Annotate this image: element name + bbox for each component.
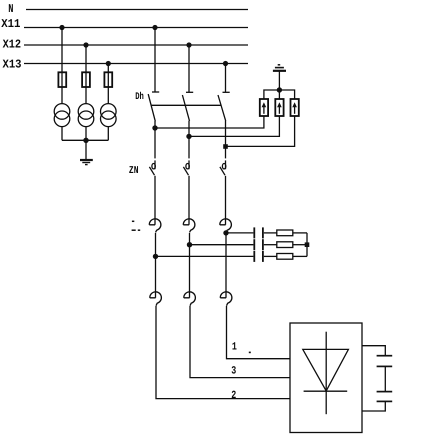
svg-text:2: 2	[231, 390, 236, 402]
node pole 1 arrester tap	[152, 125, 157, 130]
wire Dh pole 2 drop	[188, 45, 190, 92]
capacitor C5	[377, 392, 393, 402]
transformer TV3	[101, 104, 117, 127]
node RC tap pole 1	[153, 254, 158, 259]
wire PT column 1 drop	[61, 28, 63, 104]
wire Dh pole 3 drop	[225, 64, 227, 93]
RC branch 1 wire b	[264, 232, 277, 234]
arrester F1	[260, 99, 268, 116]
node X11/Dh pole 1	[152, 25, 157, 30]
wire pole 2 to CT1	[188, 176, 190, 225]
resistor R3	[277, 254, 293, 260]
wire pole 3 to RC tap	[225, 233, 227, 234]
CT row2 pole 3	[220, 292, 232, 306]
node X12/PT column 2	[83, 42, 88, 47]
wire cap link	[384, 366, 386, 391]
blade Dh pole 3	[218, 95, 226, 121]
svg-text:Dh: Dh	[135, 91, 144, 103]
node X13/PT column 3	[106, 61, 111, 66]
CT row1 pole 1	[149, 219, 161, 233]
earth (inverted)	[273, 65, 286, 71]
wire earth lead	[278, 72, 280, 91]
svg-text:ZN: ZN	[129, 165, 139, 177]
wire pole 3 to CT1	[225, 176, 227, 225]
wire TV3 to common	[107, 127, 109, 141]
arrester F3	[291, 99, 299, 116]
wire pole 3 riser	[225, 121, 227, 159]
linkage bar Dh	[151, 104, 221, 106]
node X13/Dh pole 3	[223, 61, 228, 66]
contact tick Dh pole 2	[186, 91, 193, 93]
RC branch 2 wire	[190, 244, 254, 246]
node pole 2 arrester tap	[186, 134, 191, 139]
blade Dh pole 1	[148, 94, 155, 121]
contact tick Dh pole 3	[223, 91, 230, 93]
node RC tap pole 2	[187, 242, 192, 247]
wire box output bottom	[362, 401, 385, 411]
node X11/PT column 1	[59, 25, 64, 30]
svg-text:X13: X13	[3, 58, 22, 72]
capacitor C3	[254, 251, 263, 262]
fuse FU2	[82, 72, 90, 87]
fuse FU3	[104, 72, 112, 87]
capacitor C4	[377, 356, 393, 367]
wire pole 2 to CT2	[189, 245, 191, 298]
contact tick Dh pole 1	[152, 91, 159, 93]
thyristor symbol	[303, 332, 349, 415]
RC branch 1 wire	[226, 232, 253, 234]
wire pole 1 to CT1	[154, 176, 156, 225]
svg-text:X11: X11	[1, 17, 20, 31]
wire arrester bus	[264, 90, 295, 99]
wire pole 3 to CT2	[225, 233, 227, 298]
CT row1 pole 3	[220, 219, 232, 233]
breaker ZN pole 1	[149, 160, 155, 175]
breaker ZN pole 3	[220, 160, 226, 175]
CT row1 pole 2	[183, 219, 195, 233]
wire PT column 2 drop	[85, 45, 87, 104]
wire PT common bus	[62, 139, 108, 141]
node pole 3 arrester tap	[223, 144, 228, 149]
RC branch 2 wire c	[293, 244, 307, 246]
node RC common	[305, 242, 310, 247]
CT row2 pole 1	[150, 292, 162, 306]
svg-text:N: N	[8, 2, 13, 16]
resistor R1	[277, 230, 293, 236]
wire phase 1 to box	[227, 306, 291, 359]
bus X11	[24, 27, 248, 29]
wire pole 1 to CT2	[155, 256, 157, 297]
wire common to ground	[85, 140, 87, 159]
wire pole 1 mid	[155, 233, 157, 256]
wire arrester 3 link	[226, 116, 295, 146]
wire Dh pole 1 drop	[154, 28, 156, 93]
CT row2 pole 2	[184, 292, 196, 306]
node RC tap pole 3	[223, 230, 228, 235]
bus N	[26, 9, 248, 11]
node X12/Dh pole 2	[186, 42, 191, 47]
bus X13	[24, 63, 248, 65]
wire pole 2 mid	[189, 233, 191, 245]
capacitor C1	[254, 227, 263, 238]
RC branch 1 wire c	[293, 232, 307, 234]
rectifier box U1	[290, 323, 362, 433]
wire pole 2 riser	[188, 121, 190, 159]
resistor R2	[277, 242, 293, 248]
wire pole 1 riser	[154, 121, 156, 158]
fuse FU1	[58, 72, 66, 87]
stray dot	[249, 352, 251, 354]
wire TV2 to common	[85, 127, 87, 141]
svg-text:1: 1	[232, 341, 237, 353]
node arrester bus	[277, 87, 282, 92]
RC branch 3 wire	[156, 255, 254, 257]
capacitor C2	[254, 239, 263, 250]
ground	[80, 160, 93, 165]
breaker ZN pole 2	[183, 160, 189, 175]
bus X12	[24, 44, 248, 46]
wire arrester 1 link	[155, 116, 264, 128]
wire arrester 2 link	[189, 116, 279, 136]
wire phase 2 to box	[156, 306, 290, 399]
svg-text:X12: X12	[3, 37, 22, 51]
wire box output top	[362, 346, 385, 356]
RC branch 3 wire c	[293, 255, 307, 257]
stray marks	[132, 221, 141, 230]
RC common bus	[306, 233, 308, 257]
wire phase 3 to box	[190, 306, 290, 378]
blade Dh pole 2	[182, 95, 189, 121]
node PT common	[83, 138, 88, 143]
RC branch 2 wire b	[264, 244, 277, 246]
wire TV1 to common	[61, 127, 63, 141]
wire arrester bus stub F2	[278, 90, 280, 99]
wire PT column 3 drop	[107, 64, 109, 104]
transformer TV2	[78, 104, 94, 127]
svg-text:3: 3	[231, 366, 236, 378]
transformer TV1	[54, 104, 70, 127]
RC branch 3 wire b	[264, 255, 277, 257]
arrester F2	[275, 99, 283, 116]
